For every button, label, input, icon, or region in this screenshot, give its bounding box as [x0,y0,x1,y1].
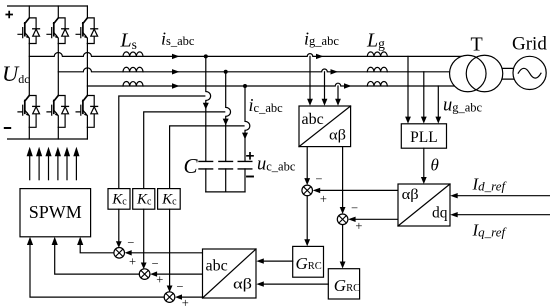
transistor S4 (lower, leg 1) (IGBT with antiparallel diode) [18,96,40,128]
svg-text:+: + [355,219,362,233]
wire: ic feedback phase B to Kc [144,112,225,189]
node: capacitor branch tap phase B [224,70,228,74]
wire: modulation signal phase B to SPWM [55,245,140,274]
svg-text:SPWM: SPWM [29,202,82,222]
wire: Id_ref input [456,195,550,197]
wire: leg 1 mid section [28,44,30,96]
wire: ic feedback phase C to Kc [170,126,244,189]
transform block alphabeta/dq [398,184,450,226]
wire: modulation signal phase C to SPWM [30,245,164,297]
wire: Kc2 output to summer [143,209,145,263]
wire: ig beta to summer 2 [342,147,344,209]
controller block GRC (beta axis) [328,269,359,299]
wire: capacitor branch phase C with ic sensor hook [245,86,250,161]
wire: ug tap phase C to PLL [437,86,439,117]
svg-text:−: − [152,256,159,270]
node - terminal [5,127,10,129]
svg-text:dq: dq [432,205,448,222]
wire: leg 2 mid section [57,44,59,96]
label + of uc [247,153,253,159]
wire: reference phase B from abc transform to summer [156,273,203,275]
summer (alpha reference minus ig alpha) [302,185,313,196]
svg-text:+: + [320,192,327,206]
svg-text:abc: abc [302,111,324,128]
wire: ig sensor phase B to abc transform [324,72,326,100]
svg-text:αβ: αβ [402,187,419,203]
transistor S3 (upper, leg 3) (IGBT with antiparallel diode) [76,18,98,44]
wire: Kc1 output to summer [118,209,120,242]
wire: beta reference from dq transform to summer 2 [354,218,398,220]
wire: reference phase C from abc transform to summer [181,296,203,298]
block PLL [401,124,446,148]
capacitor C phase C [238,161,252,169]
inductor Lg phase A [367,52,387,57]
inductor Ls phase C [123,81,143,86]
wire: capacitor neutral bus [206,191,245,193]
wire: leg 3 lower lead [86,127,88,139]
transistor S1 (upper, leg 1) (IGBT with antiparallel diode) [18,18,40,44]
wire: leg 3 upper lead [86,6,88,18]
svg-text:−: − [351,201,358,215]
wire: ug tap phase A to PLL [407,56,409,117]
wire: capacitor branch phase A with ic sensor hook [206,56,211,161]
wire: alpha reference from dq transform to summer 1 [318,189,398,191]
summer (abc reference minus Kc*ic) phase B [139,269,150,280]
inductor Ls phase B [123,67,143,72]
wire: GRC alpha output to abc transform [263,260,293,262]
transform block abc/alphabeta (top) [299,106,351,147]
gain block Kc1 [108,189,130,210]
transformer T [450,55,487,92]
svg-text:PLL: PLL [410,129,438,146]
wire: GRC beta output to abc transform [263,283,328,285]
wire: Iq_ref input [456,214,550,216]
wire: ug tap phase B to PLL [423,72,425,117]
gain block Kc3 [158,189,181,210]
svg-text:−: − [176,279,183,293]
wire: DC bus negative rail [8,138,88,140]
svg-text:abc: abc [206,258,228,275]
wire: leg 3 mid section [86,44,88,96]
wire: ig sensor phase C to abc transform [337,86,339,100]
controller block GRC (alpha axis) [293,246,324,277]
wire: summer 1 output to GRC alpha [306,196,308,240]
summer (abc reference minus Kc*ic) phase A [114,248,125,259]
gate drive signal arrows from SPWM to bridge [27,147,80,180]
capacitor C phase A [199,161,213,169]
wire: ig alpha to summer 1 [306,147,308,180]
wire: transformer to grid connections [484,68,520,79]
wire: phase A line (with crossover hops and ig sensor hook) [29,53,470,57]
wire: leg 2 lower lead [57,127,59,139]
wire: ig sensor phase A to abc transform [309,56,311,99]
summer (abc reference minus Kc*ic) phase C [164,292,175,303]
svg-text:Grid: Grid [512,34,547,55]
wire: leg 1 upper lead [28,6,30,18]
svg-text:αβ: αβ [329,127,346,143]
svg-text:+: + [129,254,136,268]
node: capacitor branch tap phase C [243,84,247,88]
grid source [513,56,546,89]
svg-text:−: − [127,235,134,249]
node: capacitor branch tap phase A [204,54,208,58]
summer (beta reference minus ig beta) [337,214,348,225]
wire: summer 2 output to GRC beta [342,225,344,263]
capacitor C phase B [219,161,233,169]
wire: PLL theta output to dq transform [423,148,425,178]
transistor S2 (upper, leg 2) (IGBT with antiparallel diode) [47,18,69,44]
current direction arrows is_abc [172,54,180,89]
wire: leg 1 lower lead [28,127,30,139]
inductor Ls phase A [123,52,143,57]
svg-text:C: C [184,154,199,178]
wire: phase C line [87,83,470,86]
transform block abc/alphabeta (inverse, bottom) [203,249,257,298]
svg-text:−: − [315,172,322,186]
wire: Kc3 output to summer [169,209,171,286]
gain block Kc2 [133,189,155,210]
wire: leg 2 upper lead [57,6,59,18]
inductor Lg phase C [367,81,387,86]
svg-text:T: T [471,34,483,56]
wire: reference phase A from abc transform to summer [130,252,202,254]
wire: capacitor branch phase B with ic sensor hook [226,72,231,162]
wire: phase B line [58,68,470,72]
current direction arrows ig_abc [316,54,352,89]
svg-text:θ: θ [431,156,439,175]
transistor S6 (lower, leg 3) (IGBT with antiparallel diode) [76,96,98,128]
wire: ic feedback phase A to Kc [119,96,205,189]
block SPWM [20,189,91,237]
svg-text:αβ: αβ [233,277,252,293]
node + terminal [6,12,12,18]
inductor Lg phase B [367,67,387,72]
transistor S5 (lower, leg 2) (IGBT with antiparallel diode) [47,96,69,128]
label - of uc [247,176,253,178]
wire: modulation signal phase A to SPWM [80,245,114,253]
wire: DC bus positive rail [8,5,88,7]
